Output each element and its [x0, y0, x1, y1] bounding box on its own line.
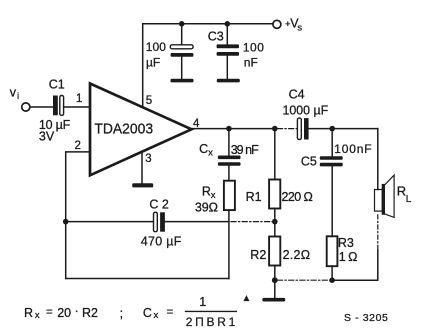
svg-text:=: = — [167, 306, 174, 318]
node output/R1 — [272, 126, 278, 132]
resistor R3 — [327, 236, 338, 280]
svg-text:1 Ω: 1 Ω — [339, 250, 358, 264]
wire pin5 up to Vs rail — [142, 24, 144, 107]
svg-text:1: 1 — [199, 295, 206, 309]
svg-text:39Ω: 39Ω — [195, 201, 218, 215]
svg-text:i: i — [17, 91, 19, 102]
svg-text:x: x — [211, 190, 216, 201]
wire Vs rail — [143, 23, 273, 25]
capacitor C5 — [320, 129, 343, 237]
svg-text:▲: ▲ — [242, 293, 251, 304]
svg-text:R3: R3 — [338, 236, 354, 250]
svg-text:TDA2003: TDA2003 — [94, 121, 153, 137]
node junction Vs/100uF — [179, 21, 185, 27]
svg-text:1: 1 — [76, 93, 82, 105]
svg-text:C1: C1 — [49, 77, 65, 91]
capacitor C4 — [297, 118, 308, 139]
pin 2 wire — [66, 152, 90, 279]
ground (100uF) — [171, 79, 194, 83]
svg-text:100: 100 — [243, 41, 264, 55]
svg-text:3: 3 — [145, 153, 151, 165]
node R3 bottom — [329, 277, 335, 283]
node output/C5 — [329, 126, 335, 132]
node R1/R2 junction — [272, 219, 278, 225]
svg-text:nF: nF — [244, 56, 258, 70]
pin 3 wire — [141, 153, 143, 184]
svg-text:µF: µF — [146, 55, 160, 69]
wire down to speaker — [377, 129, 379, 190]
capacitor C2 — [66, 212, 229, 231]
resistor R1 — [269, 129, 280, 222]
node junction Vs/C3 — [225, 21, 231, 27]
svg-text:C4: C4 — [289, 87, 305, 101]
resistor Rx — [224, 181, 235, 210]
svg-text:R: R — [397, 183, 406, 198]
wire dash-dot to C4 — [278, 128, 298, 130]
svg-text:C3: C3 — [208, 29, 224, 43]
terminal +Vs — [273, 20, 281, 28]
svg-text:x: x — [154, 310, 159, 321]
svg-text:R2: R2 — [82, 306, 98, 320]
svg-text:4: 4 — [193, 118, 200, 130]
resistor R2 — [269, 222, 280, 281]
svg-text:5: 5 — [146, 95, 152, 107]
svg-text:220 Ω: 220 Ω — [282, 190, 313, 204]
svg-text:470 µF: 470 µF — [141, 235, 182, 249]
svg-text:;: ; — [120, 307, 123, 321]
node pin2/C2 junction — [63, 219, 69, 225]
svg-text:100: 100 — [146, 40, 167, 54]
node output/Cx — [226, 126, 232, 132]
svg-text:C: C — [199, 142, 208, 156]
svg-text:C: C — [143, 306, 152, 320]
wire output pin 4 — [192, 128, 278, 130]
svg-text:1000 µF: 1000 µF — [283, 103, 329, 117]
ground (R2) — [262, 298, 285, 302]
svg-text:C 2: C 2 — [149, 197, 169, 211]
svg-text:=: = — [46, 306, 53, 318]
svg-text:2ΠBR1: 2ΠBR1 — [186, 315, 236, 329]
svg-text:3V: 3V — [39, 130, 55, 144]
svg-text:R2: R2 — [250, 248, 266, 262]
svg-text:S - 3205: S - 3205 — [344, 312, 389, 324]
wire stem to ground — [274, 280, 276, 298]
wire dash-dot Rx bottom to R1/R2 junction — [231, 221, 275, 223]
wire bottom loop — [66, 278, 229, 280]
svg-text:L: L — [406, 194, 412, 205]
wire R3 bottom to speaker return — [332, 250, 378, 280]
svg-text:39 nF: 39 nF — [231, 143, 259, 157]
wire Rx bottom down to bottom loop — [228, 210, 230, 278]
wire C4 to speaker branch — [309, 128, 378, 130]
svg-text:R: R — [202, 184, 211, 198]
svg-text:R: R — [24, 306, 33, 320]
svg-text:·: · — [75, 304, 79, 318]
capacitor C3 — [217, 24, 239, 79]
capacitor Cx — [218, 129, 241, 181]
svg-text:R1: R1 — [246, 190, 262, 204]
svg-text:100nF: 100nF — [334, 142, 371, 156]
svg-text:2.2Ω: 2.2Ω — [283, 248, 311, 262]
ground (C3) — [217, 79, 240, 83]
capacitor 100uF (supply electrolytic) — [170, 24, 193, 79]
wire input to C1 — [30, 106, 53, 108]
wire C1 to pin 1 — [64, 106, 90, 108]
input terminal vi — [22, 103, 30, 111]
op-amp U1 TDA2003 — [90, 84, 192, 176]
svg-text:v: v — [10, 86, 17, 100]
capacitor C1 — [53, 96, 64, 116]
svg-text:C5: C5 — [301, 155, 317, 169]
svg-text:s: s — [297, 22, 302, 33]
svg-text:2: 2 — [75, 140, 81, 152]
speaker RL — [375, 175, 395, 250]
wire dash-dot R2 bottom to R3 bottom — [278, 279, 333, 281]
svg-text:20: 20 — [57, 306, 71, 320]
svg-text:x: x — [35, 310, 40, 321]
ground (pin 3) — [132, 183, 153, 187]
svg-text:x: x — [208, 147, 213, 158]
node R2 bottom / ground — [272, 277, 278, 283]
